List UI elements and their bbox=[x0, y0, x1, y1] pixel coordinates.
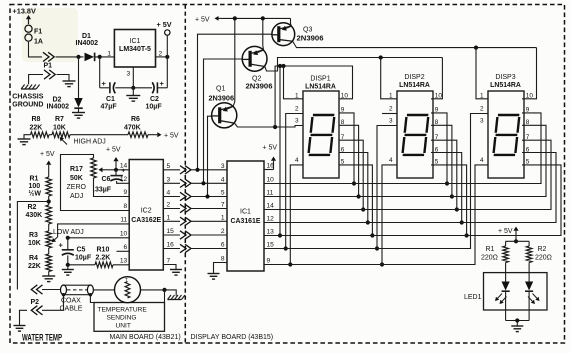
resistor R2 430K bbox=[46, 205, 52, 224]
LED left diode bbox=[505, 263, 507, 282]
svg-text:R3: R3 bbox=[29, 232, 38, 239]
svg-text:12: 12 bbox=[120, 176, 128, 183]
svg-text:IN4002: IN4002 bbox=[47, 104, 70, 111]
ground (LED1) bbox=[511, 325, 523, 327]
wire DISP2 pin3 to bus15 bbox=[377, 126, 397, 249]
svg-text:7: 7 bbox=[167, 258, 171, 265]
resistor R8 22K bbox=[31, 132, 50, 138]
svg-text:220Ω: 220Ω bbox=[535, 255, 552, 262]
board divider main/display bbox=[184, 5, 186, 344]
svg-text:4: 4 bbox=[480, 157, 484, 164]
svg-text:Q2: Q2 bbox=[252, 76, 261, 83]
resistor R2 220ohm (display board) bbox=[528, 241, 530, 246]
wire Q1 base from IC2 pin4 line bbox=[208, 116, 213, 196]
svg-text:DISP2: DISP2 bbox=[404, 74, 424, 81]
node +5V (IC1 pin16) bbox=[264, 169, 274, 171]
connector P2 (upper) bbox=[37, 285, 43, 294]
svg-text:+ 5V: + 5V bbox=[263, 145, 278, 152]
svg-text:22K: 22K bbox=[30, 125, 43, 132]
svg-text:+13.8V: +13.8V bbox=[13, 7, 36, 16]
svg-text:GROUND: GROUND bbox=[12, 101, 43, 108]
resistor R1 100 1/2W bbox=[48, 171, 50, 177]
trimmer R17 50K ZERO ADJ bbox=[91, 158, 97, 178]
op-amp U2 a/d converter IC2 CA3162E bbox=[129, 160, 163, 271]
connector P1 (upper contact) bbox=[43, 52, 49, 61]
LED right diode bbox=[528, 263, 530, 282]
op-amp U1 regulator IC1 LM340T-5 bbox=[114, 30, 155, 68]
transistor Q3 2N3906 bbox=[272, 23, 295, 46]
svg-text:6: 6 bbox=[221, 242, 225, 249]
svg-text:R6: R6 bbox=[131, 116, 140, 123]
wire DISP1 common top loop bbox=[275, 66, 352, 127]
chassis ground (sensor) bbox=[168, 299, 182, 301]
svg-text:LN514RA: LN514RA bbox=[305, 84, 336, 91]
wire Q3 base from IC2 pin5 line bbox=[198, 34, 273, 170]
svg-text:.33µF: .33µF bbox=[93, 187, 112, 194]
wire DISP2 pin2 stub bbox=[382, 113, 397, 115]
svg-text:CHASSIS: CHASSIS bbox=[12, 94, 43, 101]
svg-text:2: 2 bbox=[389, 106, 393, 113]
wire P1 to D1 bbox=[56, 56, 84, 58]
svg-text:P2: P2 bbox=[31, 299, 40, 306]
wire IC2 pin6 stub bbox=[117, 250, 130, 252]
svg-text:½W: ½W bbox=[29, 190, 42, 198]
wire R17 bottom to IC2 pin 9 bbox=[94, 178, 130, 197]
wire DISP1 pin1 bbox=[281, 64, 285, 68]
svg-text:IC1: IC1 bbox=[130, 38, 141, 45]
svg-text:C1: C1 bbox=[106, 96, 115, 103]
svg-text:P1: P1 bbox=[44, 63, 53, 70]
op-amp U3 decoder IC1 CA3161E bbox=[227, 161, 264, 271]
svg-text:14: 14 bbox=[267, 203, 275, 210]
svg-text:D2: D2 bbox=[53, 97, 62, 104]
ground (R4) bbox=[48, 272, 50, 277]
wire sensor to chassis ground bbox=[141, 289, 165, 291]
svg-text:2: 2 bbox=[221, 228, 225, 235]
svg-text:TEMPERATURE: TEMPERATURE bbox=[98, 307, 148, 314]
svg-text:R17: R17 bbox=[70, 166, 83, 173]
svg-text:2: 2 bbox=[167, 202, 171, 209]
svg-text:+: + bbox=[160, 79, 165, 88]
svg-text:4: 4 bbox=[389, 157, 393, 164]
ground (regulator common) bbox=[132, 88, 134, 96]
svg-text:3: 3 bbox=[480, 118, 484, 125]
svg-text:R8: R8 bbox=[32, 116, 41, 123]
svg-text:WATER TEMP: WATER TEMP bbox=[22, 333, 62, 343]
coax cable symbol bbox=[64, 284, 91, 286]
diode D1 IN4002 bbox=[85, 53, 95, 62]
svg-text:13: 13 bbox=[120, 258, 128, 265]
wire Q1 collector to DISP1 bbox=[235, 123, 303, 127]
svg-text:DISP1: DISP1 bbox=[310, 76, 330, 83]
svg-text:430K: 430K bbox=[26, 212, 43, 219]
wire IC2 pin7 to ground bbox=[163, 265, 176, 270]
svg-text:3: 3 bbox=[295, 118, 299, 125]
bus 9 from IC1 pin9 to DISP3 pin4 bbox=[264, 165, 488, 265]
svg-text:CA3162E: CA3162E bbox=[131, 217, 161, 224]
temperature sending unit bbox=[94, 303, 165, 332]
svg-text:10µF: 10µF bbox=[146, 104, 163, 111]
svg-text:R7: R7 bbox=[55, 116, 64, 123]
svg-text:4: 4 bbox=[167, 190, 171, 197]
svg-text:R1: R1 bbox=[486, 246, 495, 253]
svg-text:C5: C5 bbox=[77, 247, 86, 254]
svg-text:14: 14 bbox=[120, 163, 128, 170]
resistor R3 10K (low adj pot) bbox=[48, 224, 50, 231]
svg-text:F1: F1 bbox=[34, 29, 42, 36]
svg-text:+ 5V: + 5V bbox=[164, 133, 179, 140]
svg-text:1A: 1A bbox=[34, 39, 43, 46]
ground (IC1 pin8) bbox=[208, 273, 220, 275]
svg-text:13: 13 bbox=[267, 229, 275, 236]
svg-text:DISPLAY BOARD (43B15): DISPLAY BOARD (43B15) bbox=[191, 334, 274, 341]
svg-text:11: 11 bbox=[267, 190, 274, 197]
wiper arrow R7 bbox=[62, 140, 67, 145]
capacitor C1 47uF bbox=[109, 82, 111, 93]
wire IC2 pin10 to C5 bbox=[68, 237, 129, 239]
svg-text:2N3906: 2N3906 bbox=[246, 84, 273, 91]
svg-text:10µF: 10µF bbox=[75, 255, 92, 262]
svg-text:+ 5V: + 5V bbox=[157, 20, 172, 29]
svg-text:LN514RA: LN514RA bbox=[399, 82, 430, 89]
svg-text:3: 3 bbox=[221, 163, 225, 170]
wires DISP1 segment pins to buses bbox=[339, 113, 354, 184]
svg-text:2N3906: 2N3906 bbox=[297, 36, 324, 43]
resistor R7 10K (high adj pot) bbox=[49, 134, 52, 136]
svg-text:+: + bbox=[102, 79, 107, 88]
svg-text:+ 5V: + 5V bbox=[195, 17, 210, 24]
wire DISP1 top tap to bus13 bbox=[278, 64, 282, 68]
svg-text:R1: R1 bbox=[30, 176, 39, 183]
svg-text:10: 10 bbox=[120, 231, 128, 238]
svg-text:3: 3 bbox=[127, 71, 131, 78]
svg-text:5: 5 bbox=[167, 163, 171, 170]
svg-text:9: 9 bbox=[124, 189, 128, 196]
node +5V output terminal bbox=[165, 30, 170, 35]
svg-text:SENDING: SENDING bbox=[107, 315, 137, 322]
wire coax to sensor bbox=[93, 289, 114, 291]
svg-text:UNIT: UNIT bbox=[116, 323, 131, 330]
transistor Q1 2N3906 bbox=[212, 103, 237, 128]
svg-text:ADJ: ADJ bbox=[70, 193, 83, 200]
svg-text:220Ω: 220Ω bbox=[481, 255, 498, 262]
svg-text:11: 11 bbox=[120, 217, 127, 224]
wires LEDs to ground bbox=[505, 291, 507, 320]
svg-text:2N3906: 2N3906 bbox=[209, 95, 235, 102]
wire DISP2 pin4 to bus9 bbox=[382, 165, 397, 265]
wires IC2 outputs to board connector bbox=[163, 169, 180, 171]
svg-text:9: 9 bbox=[267, 258, 271, 265]
wires DISP3 segment pins to bus ends bbox=[264, 113, 541, 184]
node +5V (IC2 pin14) bbox=[115, 161, 117, 170]
wire R1-R2 junction to P2 bbox=[48, 196, 50, 205]
ground (P1 lower) bbox=[63, 80, 76, 82]
svg-text:IC2: IC2 bbox=[141, 208, 152, 215]
wire input node down to C1 bbox=[99, 57, 101, 88]
svg-text:470K: 470K bbox=[124, 125, 141, 132]
svg-text:47µF: 47µF bbox=[101, 104, 118, 111]
wires DISP2 segment pins to buses bbox=[431, 113, 447, 184]
node junction D2 tap bbox=[76, 55, 80, 59]
svg-text:ZERO: ZERO bbox=[67, 184, 87, 191]
svg-text:+: + bbox=[59, 240, 64, 249]
decorative scan highlight bbox=[22, 8, 78, 62]
svg-text:15: 15 bbox=[167, 228, 175, 235]
wire R17 top loop to pin 8 bbox=[61, 155, 130, 211]
wire IC1 pin2 to +5V terminal bbox=[156, 56, 168, 58]
capacitor C6 .33uF bbox=[115, 170, 117, 176]
wire IC2 pin14 / wiper bbox=[103, 169, 117, 171]
wire IC1 pin3 to ground node bbox=[132, 67, 134, 88]
svg-text:10: 10 bbox=[267, 177, 275, 184]
svg-text:1: 1 bbox=[221, 214, 225, 221]
svg-text:2.2K: 2.2K bbox=[96, 255, 111, 262]
svg-text:R10: R10 bbox=[97, 247, 110, 254]
svg-text:HIGH ADJ: HIGH ADJ bbox=[74, 139, 106, 146]
svg-text:C2: C2 bbox=[150, 96, 159, 103]
ground (C5) bbox=[67, 265, 69, 270]
svg-text:+ 5V: + 5V bbox=[498, 228, 513, 235]
wire to ground after P1 lower bbox=[57, 75, 70, 82]
svg-text:IC1: IC1 bbox=[240, 209, 251, 216]
ground (P2 lower) bbox=[14, 325, 26, 327]
LED1 dual indicator box bbox=[484, 273, 548, 310]
chassis ground (input) bbox=[21, 88, 36, 90]
wire DISP1 pin4 to bus9 bbox=[290, 165, 303, 265]
bus 15 from IC1 pin15 to DISP3 pin2 bbox=[264, 114, 488, 249]
svg-text:LED1: LED1 bbox=[464, 294, 482, 301]
connector P1 (lower contact / chassis) bbox=[29, 75, 43, 85]
svg-text:5: 5 bbox=[221, 190, 225, 197]
resistor R1 220ohm (display board) bbox=[505, 241, 507, 246]
svg-text:12: 12 bbox=[267, 216, 275, 223]
wire coax shield to sensor box bbox=[90, 295, 94, 303]
diode D2 IN4002 (clamp) bbox=[78, 57, 80, 98]
svg-text:LM340T-5: LM340T-5 bbox=[119, 46, 151, 53]
svg-text:IN4002: IN4002 bbox=[76, 40, 99, 47]
svg-text:+ 5V: + 5V bbox=[40, 151, 55, 158]
svg-text:2: 2 bbox=[295, 106, 299, 113]
svg-text:Q1: Q1 bbox=[216, 85, 225, 92]
svg-text:R2: R2 bbox=[28, 204, 37, 211]
svg-text:T: T bbox=[125, 277, 128, 282]
svg-text:R2: R2 bbox=[538, 246, 547, 253]
svg-text:16: 16 bbox=[267, 163, 275, 170]
svg-text:LN514RA: LN514RA bbox=[490, 82, 521, 89]
wire IC1 pin8 to ground bbox=[214, 263, 228, 274]
resistor R10 2.2K bbox=[95, 262, 113, 268]
wire R6 to +5V bbox=[148, 134, 157, 136]
svg-text:6: 6 bbox=[124, 244, 128, 251]
ground (R8 left) bbox=[24, 135, 31, 139]
svg-text:16: 16 bbox=[167, 242, 175, 249]
wire R7 to R6 bbox=[70, 134, 128, 136]
fuse F1 1A bbox=[25, 25, 32, 32]
svg-text:+ 5V: + 5V bbox=[106, 147, 121, 154]
svg-text:Q3: Q3 bbox=[303, 27, 312, 34]
svg-text:8: 8 bbox=[124, 203, 128, 210]
wire fuse to P1 bbox=[29, 42, 43, 57]
svg-text:100: 100 bbox=[29, 183, 41, 190]
wire C5 to R10 row bbox=[68, 264, 95, 266]
wire DISP1 pin2 to bus15 bbox=[286, 114, 303, 249]
svg-text:C6: C6 bbox=[102, 176, 111, 183]
svg-text:7: 7 bbox=[221, 202, 225, 209]
wire Q2 collector over DISP2 bbox=[265, 58, 443, 72]
svg-text:3: 3 bbox=[389, 118, 393, 125]
wire Q3 collector over DISP3 bbox=[293, 41, 537, 47]
resistor R4 22K bbox=[48, 248, 50, 254]
wire D1 to IC1 regulator bbox=[95, 56, 115, 58]
svg-text:10K: 10K bbox=[53, 125, 66, 132]
svg-text:2: 2 bbox=[480, 106, 484, 113]
svg-text:10K: 10K bbox=[28, 240, 41, 247]
svg-text:8: 8 bbox=[221, 256, 225, 263]
svg-text:CA3161E: CA3161E bbox=[231, 218, 261, 225]
wire DISP2 common top bbox=[379, 55, 383, 59]
resistor R6 470K bbox=[128, 132, 148, 138]
svg-text:D1: D1 bbox=[82, 33, 91, 40]
ground (IC2 pin7) bbox=[170, 269, 182, 271]
svg-text:1: 1 bbox=[107, 51, 111, 58]
svg-text:1: 1 bbox=[167, 214, 171, 221]
svg-text:MAIN BOARD (43B21): MAIN BOARD (43B21) bbox=[110, 334, 181, 341]
svg-text:4: 4 bbox=[295, 157, 299, 164]
transistor Q2 2N3906 bbox=[242, 46, 267, 71]
wire Q2 base from IC2 pin3 line bbox=[204, 59, 243, 183]
svg-text:22K: 22K bbox=[28, 263, 41, 270]
svg-text:3: 3 bbox=[167, 176, 171, 183]
capacitor C2 10uF bbox=[152, 82, 154, 93]
svg-text:R4: R4 bbox=[29, 255, 38, 262]
svg-text:4: 4 bbox=[221, 176, 225, 183]
wire DISP3 common top bbox=[474, 46, 478, 50]
svg-text:DISP3: DISP3 bbox=[495, 74, 515, 81]
ground (D2) bbox=[72, 112, 85, 114]
svg-text:15: 15 bbox=[267, 242, 275, 249]
svg-text:50K: 50K bbox=[70, 175, 83, 182]
